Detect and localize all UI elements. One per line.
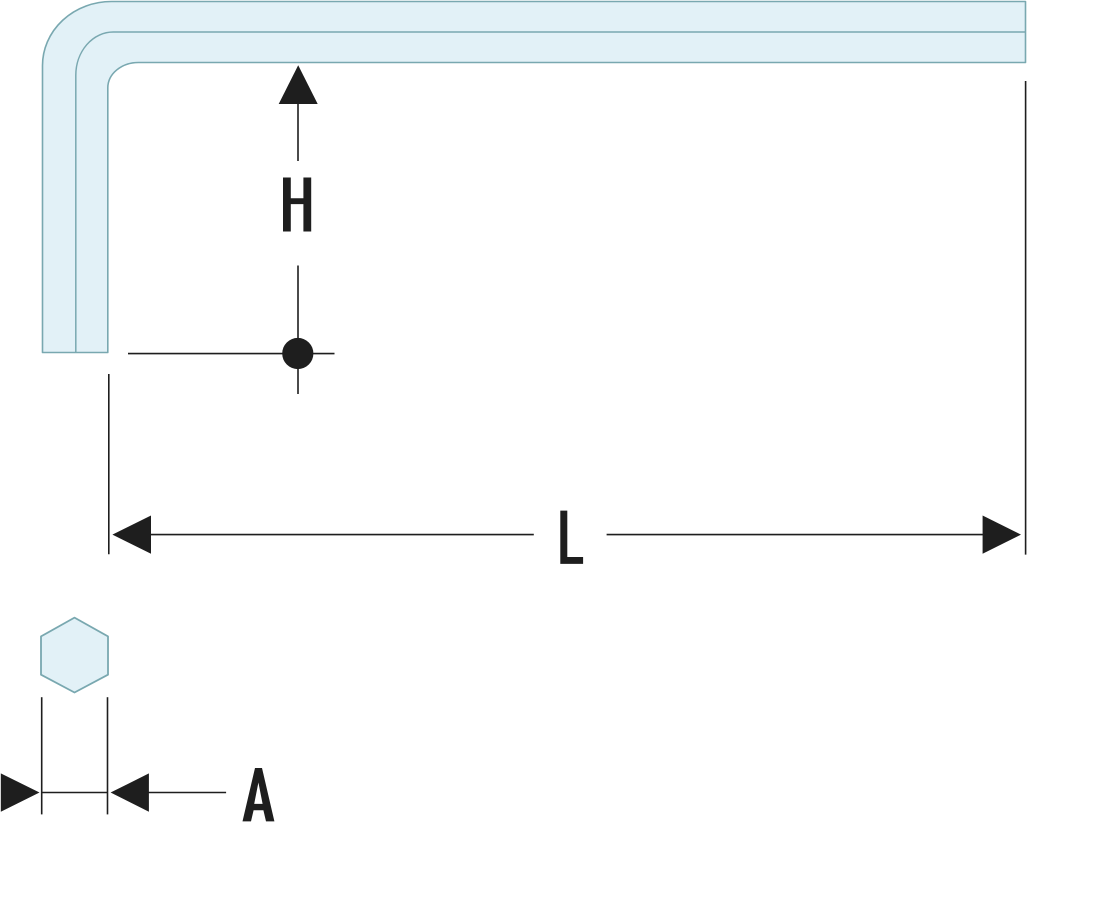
centre point dot	[282, 338, 313, 369]
extension line A left	[41, 697, 43, 814]
extension line A right	[107, 697, 109, 814]
dimension L left arrowhead	[112, 516, 151, 554]
label H	[283, 178, 311, 232]
label L	[560, 511, 583, 564]
dimension A right arrowhead (pointing left)	[111, 773, 149, 811]
centre point horizontal line	[128, 353, 335, 355]
dimension L right arrowhead	[983, 516, 1021, 554]
extension line L right	[1025, 81, 1027, 555]
dimension L line right segment	[607, 534, 984, 536]
extension line L left	[108, 374, 110, 554]
hex key L-shaped body	[43, 2, 1026, 353]
hex key facet middle line	[76, 32, 1026, 353]
dimension H line upper segment	[297, 103, 299, 161]
dimension A left arrowhead (pointing right, clipped at page edge)	[1, 773, 40, 811]
dimension A line between extension lines	[42, 792, 108, 794]
label A	[243, 768, 275, 821]
dimension H arrowhead (up)	[279, 65, 318, 104]
hexagon cross-section	[41, 618, 108, 693]
dimension L line left segment	[150, 534, 534, 536]
dimension A tail line	[148, 792, 226, 794]
dimension H line lower segment	[297, 266, 299, 395]
